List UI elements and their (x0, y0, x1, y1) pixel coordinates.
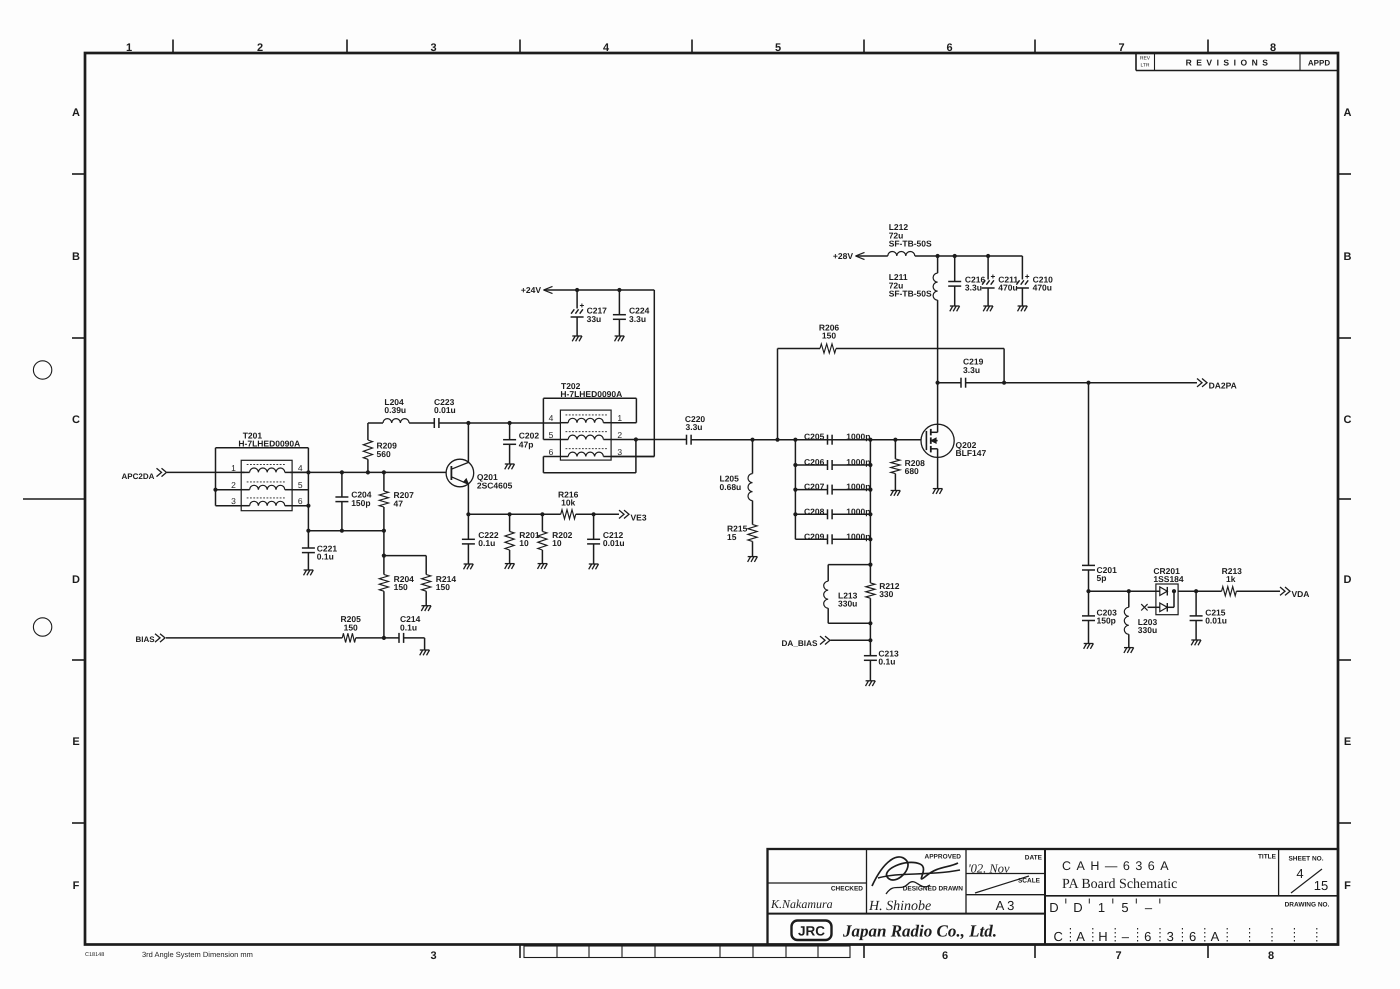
svg-text:3: 3 (617, 447, 622, 457)
svg-text:Japan Radio Co., Ltd.: Japan Radio Co., Ltd. (842, 922, 997, 941)
svg-text:3.3u: 3.3u (685, 422, 702, 432)
svg-text:150: 150 (344, 622, 358, 632)
svg-text:4: 4 (603, 42, 610, 54)
svg-text:K.Nakamura: K.Nakamura (770, 897, 833, 911)
svg-text:3: 3 (430, 950, 436, 962)
svg-text:1: 1 (231, 463, 236, 473)
svg-text:330: 330 (879, 589, 893, 599)
svg-text:DRAWING NO.: DRAWING NO. (1285, 902, 1330, 909)
svg-text:5: 5 (775, 42, 781, 54)
svg-text:6: 6 (942, 950, 948, 962)
svg-text:H. Shinobe: H. Shinobe (868, 899, 931, 914)
svg-text:6: 6 (298, 496, 303, 506)
svg-text:5: 5 (298, 480, 303, 490)
svg-text:1SS184: 1SS184 (1153, 574, 1184, 584)
svg-text:D: D (1344, 574, 1352, 586)
svg-text:2: 2 (617, 430, 622, 440)
svg-text:4: 4 (1296, 866, 1303, 881)
svg-text:F: F (1344, 880, 1351, 892)
svg-text:0.1u: 0.1u (400, 622, 417, 632)
svg-text:470u: 470u (1033, 283, 1052, 293)
svg-text:2SC4605: 2SC4605 (477, 480, 513, 490)
svg-text:E: E (1344, 736, 1351, 748)
svg-text:C: C (72, 414, 80, 426)
svg-text:1: 1 (126, 42, 132, 54)
svg-text:0.1u: 0.1u (878, 657, 895, 667)
svg-text:A: A (72, 107, 80, 119)
svg-text:8: 8 (1268, 950, 1274, 962)
svg-text:10: 10 (519, 538, 529, 548)
svg-text:CAH—636A: CAH—636A (1062, 859, 1174, 873)
svg-text:5: 5 (549, 430, 554, 440)
svg-text:A: A (1076, 929, 1085, 944)
svg-text:C206: C206 (804, 457, 825, 467)
svg-text:8: 8 (1270, 42, 1276, 54)
svg-text:A: A (1211, 929, 1220, 944)
svg-text:APC2DA: APC2DA (122, 472, 155, 481)
svg-text:680: 680 (905, 466, 919, 476)
svg-text:D: D (1049, 900, 1058, 915)
svg-text:C209: C209 (804, 531, 825, 541)
svg-text:3.3u: 3.3u (629, 314, 646, 324)
svg-text:E: E (72, 736, 79, 748)
svg-text:7: 7 (1115, 950, 1121, 962)
svg-text:F: F (73, 880, 80, 892)
svg-text:C: C (1344, 414, 1352, 426)
svg-text:1: 1 (617, 413, 622, 423)
svg-text:2: 2 (257, 42, 263, 54)
svg-text:1: 1 (1098, 900, 1105, 915)
svg-text:150: 150 (394, 582, 408, 592)
svg-text:150: 150 (822, 331, 836, 341)
svg-text:B: B (1344, 251, 1352, 263)
svg-text:10: 10 (552, 538, 562, 548)
svg-text:3.3u: 3.3u (965, 283, 982, 293)
svg-text:SF-TB-50S: SF-TB-50S (889, 289, 932, 299)
svg-text:APPROVED: APPROVED (925, 854, 962, 861)
svg-text:B: B (72, 251, 80, 263)
svg-text:560: 560 (377, 449, 391, 459)
svg-text:TITLE: TITLE (1258, 854, 1277, 861)
svg-text:+24V: +24V (521, 285, 541, 295)
svg-text:D: D (72, 574, 80, 586)
svg-text:1k: 1k (1226, 574, 1236, 584)
svg-text:H-7LHED0090A: H-7LHED0090A (238, 439, 300, 449)
svg-text:5: 5 (1121, 900, 1128, 915)
svg-text:470u: 470u (998, 283, 1017, 293)
svg-text:DA2PA: DA2PA (1209, 381, 1237, 391)
svg-text:150p: 150p (351, 498, 370, 508)
svg-text:0.01u: 0.01u (603, 538, 625, 548)
svg-text:CHECKED: CHECKED (831, 886, 863, 893)
svg-text:'02. Nov: '02. Nov (968, 862, 1010, 876)
svg-text:DESIGNED DRAWN: DESIGNED DRAWN (903, 886, 964, 893)
svg-text:1000p: 1000p (846, 432, 870, 442)
svg-text:BIAS: BIAS (136, 635, 156, 644)
svg-text:–: – (1122, 929, 1130, 944)
svg-text:JRC: JRC (798, 924, 825, 939)
svg-text:1000p: 1000p (846, 506, 870, 516)
svg-text:6: 6 (946, 42, 952, 54)
svg-text:0.01u: 0.01u (1205, 616, 1227, 626)
svg-text:6: 6 (1189, 929, 1196, 944)
svg-text:A: A (1344, 107, 1352, 119)
svg-text:C: C (1054, 929, 1063, 944)
svg-text:4: 4 (298, 463, 303, 473)
svg-text:7: 7 (1118, 42, 1124, 54)
svg-text:0.39u: 0.39u (384, 405, 406, 415)
svg-text:330u: 330u (1138, 625, 1157, 635)
svg-text:0.68u: 0.68u (720, 482, 742, 492)
svg-text:6: 6 (549, 447, 554, 457)
svg-text:REV: REV (1140, 56, 1151, 62)
svg-text:C208: C208 (804, 506, 825, 516)
svg-text:4: 4 (549, 413, 554, 423)
svg-text:DA_BIAS: DA_BIAS (782, 639, 818, 648)
svg-text:15: 15 (727, 532, 737, 542)
svg-text:C207: C207 (804, 482, 825, 492)
svg-text:47p: 47p (519, 440, 534, 450)
svg-text:3.3u: 3.3u (963, 365, 980, 375)
svg-text:SF-TB-50S: SF-TB-50S (889, 239, 932, 249)
svg-text:PA Board Schematic: PA Board Schematic (1062, 877, 1177, 892)
svg-text:150: 150 (436, 582, 450, 592)
svg-text:H-7LHED0090A: H-7LHED0090A (560, 389, 622, 399)
svg-text:3rd Angle System Dimension mm: 3rd Angle System Dimension mm (142, 950, 253, 959)
svg-text:3: 3 (231, 496, 236, 506)
svg-text:D: D (1073, 900, 1082, 915)
svg-text:REVISIONS: REVISIONS (1186, 58, 1273, 68)
svg-text:47: 47 (394, 498, 404, 508)
svg-text:0.01u: 0.01u (434, 405, 456, 415)
svg-text:1000p: 1000p (846, 482, 870, 492)
svg-text:0.1u: 0.1u (478, 538, 495, 548)
svg-text:330u: 330u (838, 598, 857, 608)
svg-text:APPD: APPD (1308, 59, 1330, 68)
svg-text:BLF147: BLF147 (956, 448, 987, 458)
svg-text:VE3: VE3 (631, 512, 647, 522)
svg-text:3: 3 (430, 42, 436, 54)
svg-text:33u: 33u (587, 314, 602, 324)
svg-text:10k: 10k (561, 498, 575, 508)
svg-text:1000p: 1000p (846, 457, 870, 467)
svg-text:2: 2 (231, 480, 236, 490)
svg-text:C205: C205 (804, 432, 825, 442)
svg-text:DATE: DATE (1025, 855, 1043, 862)
svg-text:A 3: A 3 (996, 898, 1015, 913)
svg-text:15: 15 (1314, 878, 1328, 893)
svg-text:C18148: C18148 (85, 952, 104, 958)
svg-text:SHEET NO.: SHEET NO. (1288, 856, 1323, 863)
svg-text:+28V: +28V (833, 251, 853, 261)
svg-text:1000p: 1000p (846, 531, 870, 541)
svg-text:5p: 5p (1097, 573, 1107, 583)
svg-text:H: H (1098, 929, 1107, 944)
svg-text:6: 6 (1144, 929, 1151, 944)
svg-text:–: – (1145, 900, 1153, 915)
svg-text:VDA: VDA (1292, 589, 1310, 599)
svg-text:3: 3 (1167, 929, 1174, 944)
svg-text:LTR: LTR (1140, 63, 1149, 69)
svg-text:150p: 150p (1097, 616, 1116, 626)
svg-text:0.1u: 0.1u (317, 552, 334, 562)
